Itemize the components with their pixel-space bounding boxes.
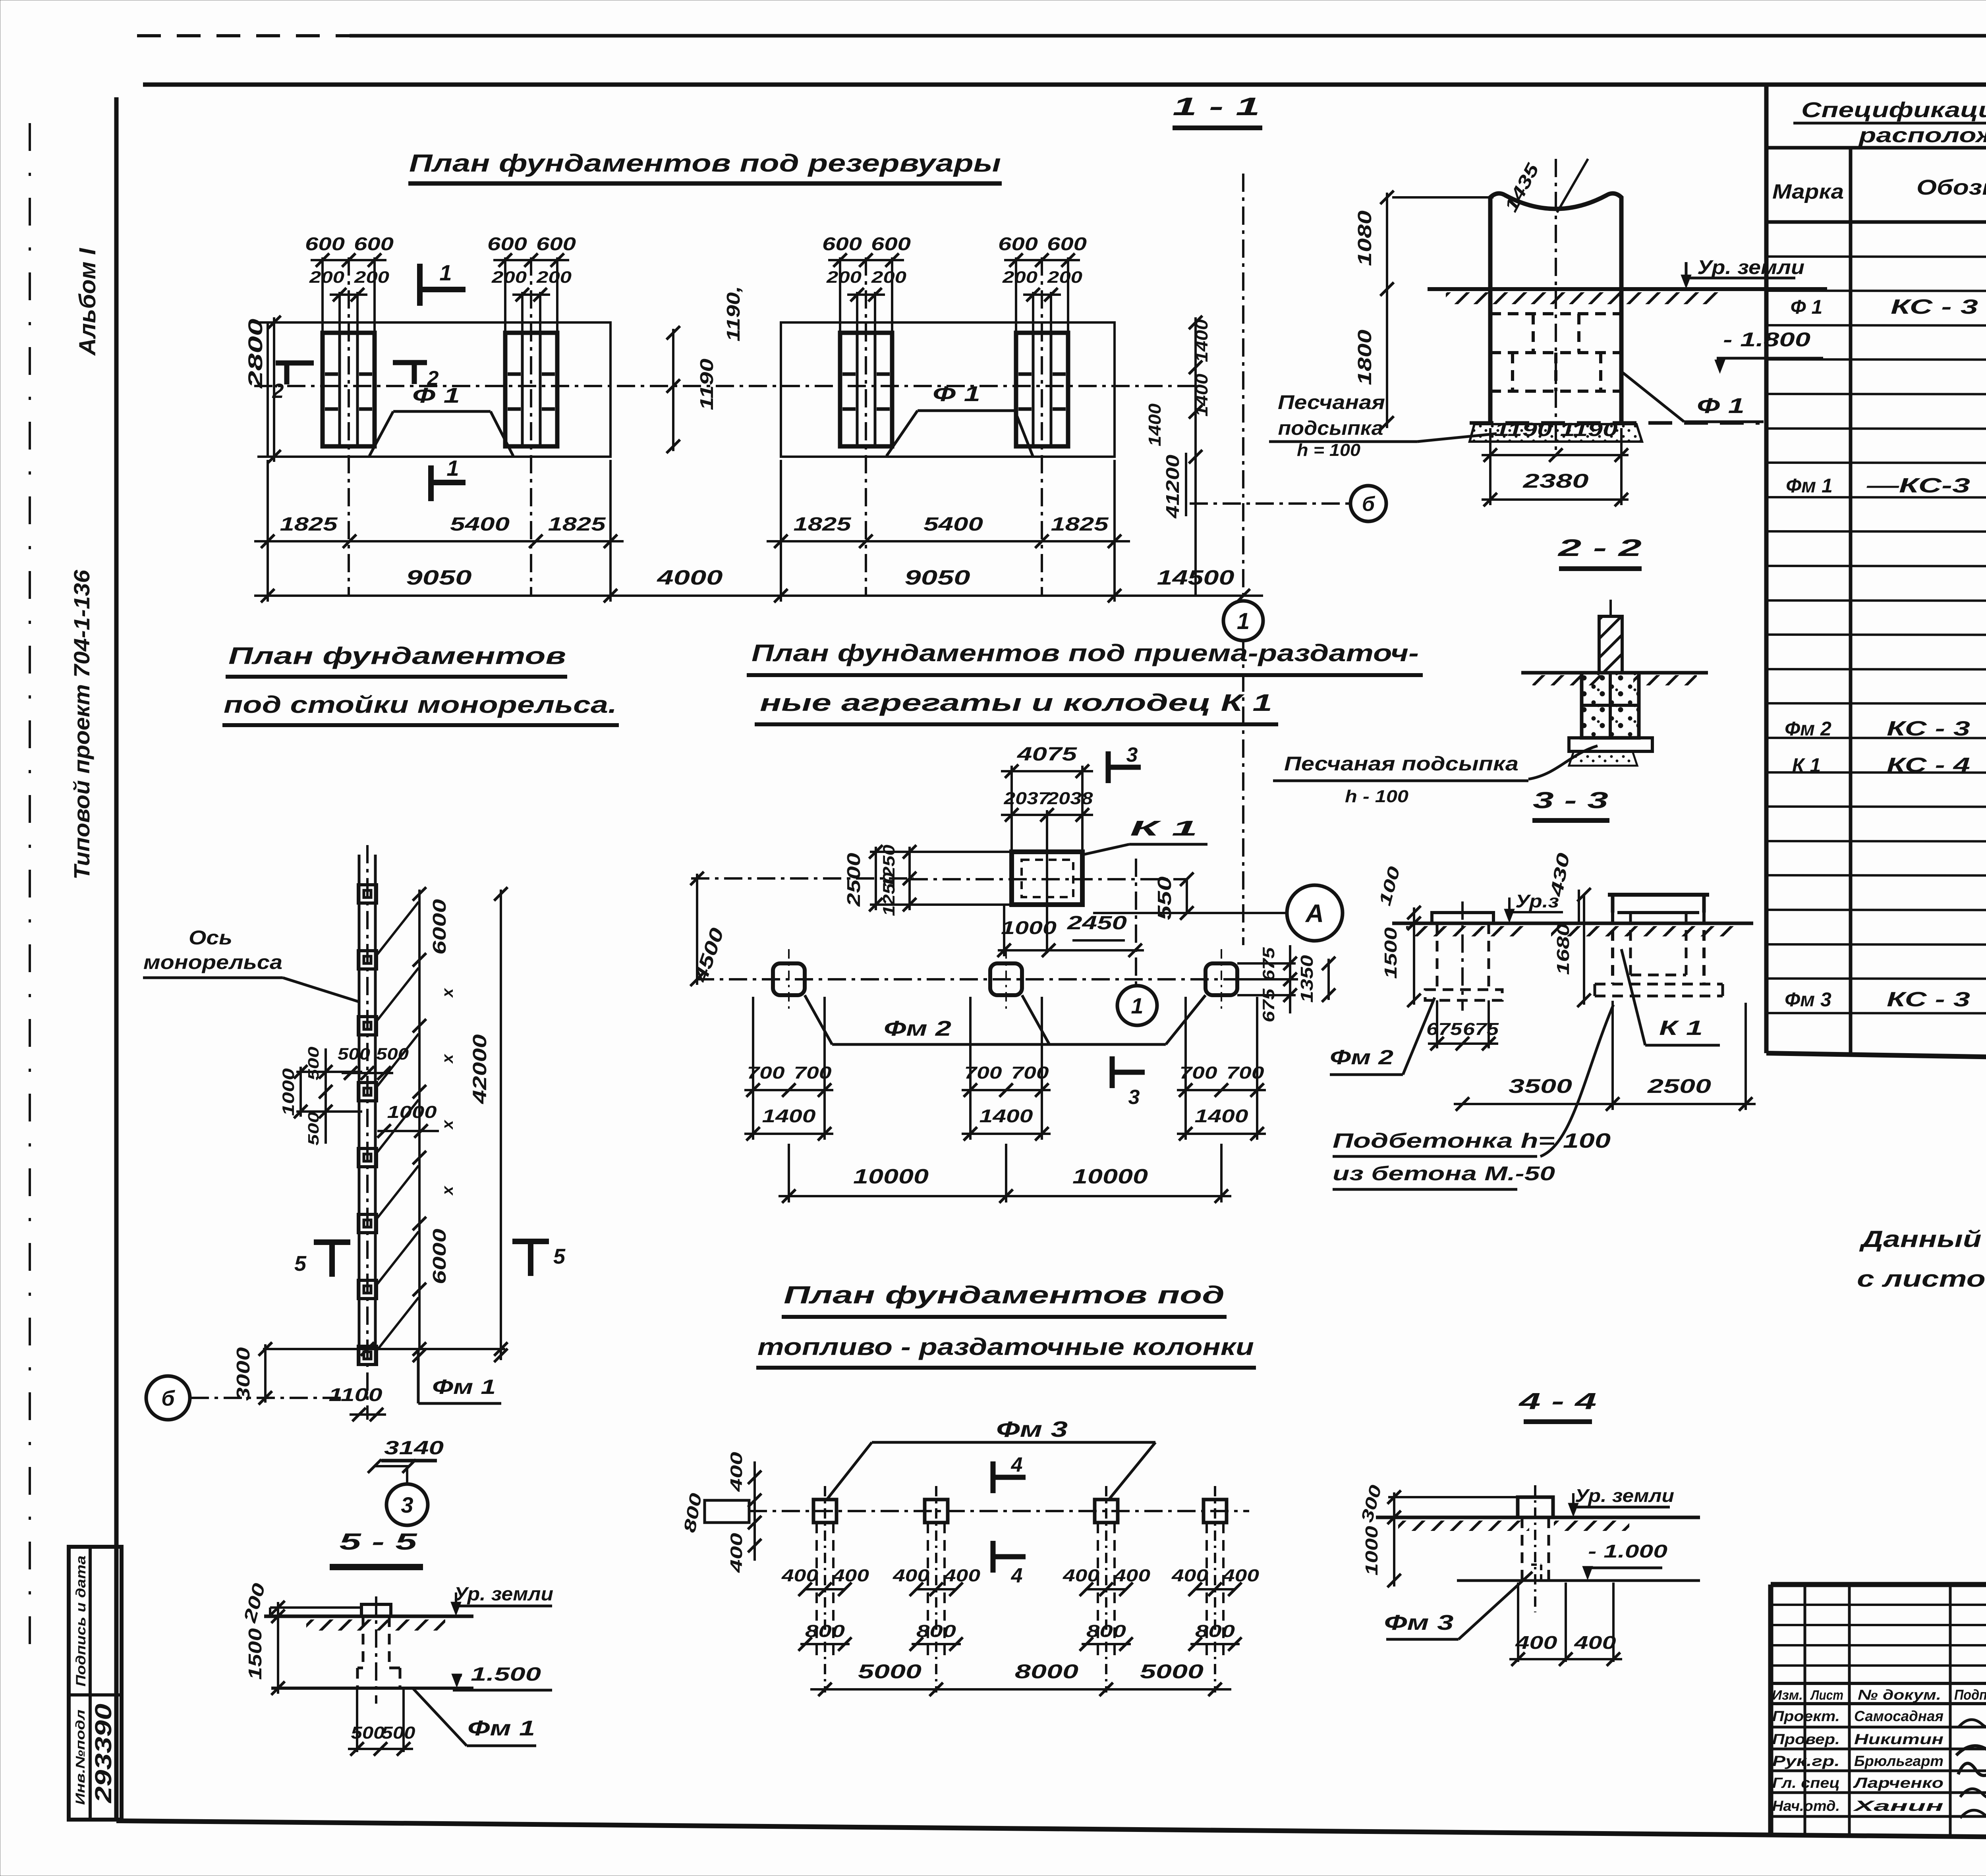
horizontal axis line of tank plan (254, 385, 1196, 387)
svg-text:700: 700 (1011, 1063, 1049, 1083)
left stamp box (69, 1547, 122, 1820)
tank pit outline group 2 (781, 322, 1115, 457)
axis line 1 central vertical (1135, 859, 1137, 986)
label ur zemli (1681, 256, 1804, 288)
axis circle 1 central (1117, 986, 1157, 1025)
svg-text:Ур. земли: Ур. земли (1697, 256, 1804, 278)
svg-text:800: 800 (1086, 1621, 1126, 1641)
svg-text:400: 400 (727, 1533, 746, 1573)
svg-text:2500: 2500 (843, 853, 864, 907)
svg-text:600: 600 (354, 234, 394, 254)
svg-text:200: 200 (354, 268, 389, 286)
svg-text:10000: 10000 (853, 1165, 929, 1188)
svg-text:400: 400 (1171, 1566, 1209, 1585)
dimension 430 (1547, 851, 1579, 923)
svg-text:План фундаментов под приема: План фундаментов под приема-раздаточ- (752, 640, 1419, 666)
svg-text:400: 400 (893, 1566, 930, 1585)
svg-text:Альбом I: Альбом I (75, 247, 100, 356)
svg-text:675: 675 (1259, 988, 1278, 1023)
svg-text:400: 400 (1574, 1632, 1616, 1653)
svg-text:Ханин: Ханин (1853, 1798, 1943, 1814)
svg-text:1: 1 (1237, 608, 1250, 634)
dimension 200/200 block 4 (1002, 268, 1082, 333)
dimension 675/675 under Fm2 3-3 (1426, 1000, 1499, 1050)
svg-text:2 - 2: 2 - 2 (1557, 535, 1642, 561)
dimension 2037/2038 (1001, 789, 1093, 852)
bottom dim line monorail (263, 1342, 508, 1356)
foundation block Ф1 #1 (323, 257, 375, 596)
label F1 right group (887, 382, 1033, 456)
svg-text:1680: 1680 (1553, 923, 1573, 975)
foundation block Ф1 #3 (840, 257, 892, 596)
svg-text:700: 700 (1227, 1063, 1265, 1083)
dimension row 1825/5400/1825 group1 (254, 460, 624, 548)
svg-text:Инв.№подл: Инв.№подл (73, 1710, 87, 1805)
brace diagonal #1 (377, 902, 419, 954)
svg-text:200: 200 (309, 268, 344, 286)
buried foundation dashed blocks (1490, 289, 1621, 423)
svg-text:600: 600 (1047, 234, 1087, 254)
svg-text:400: 400 (832, 1566, 869, 1585)
table row F1 (1791, 295, 1986, 318)
dimension 1190/1190 below section (1482, 419, 1629, 462)
ground line 2-2 (1521, 673, 1708, 685)
dimension 200/200 block 2 (491, 268, 572, 333)
svg-text:5400: 5400 (450, 514, 510, 535)
svg-text:Провер.: Провер. (1772, 1731, 1840, 1747)
tank pit outline group 1 (268, 322, 610, 457)
svg-text:План фундаментов: План фундаментов (228, 643, 566, 669)
svg-text:КС - 3: КС - 3 (1891, 295, 1978, 318)
svg-text:Гл. спец: Гл. спец (1772, 1775, 1840, 1791)
dimension 400/400 4-4 (1509, 1583, 1622, 1666)
svg-text:Рук.гр.: Рук.гр. (1772, 1753, 1840, 1769)
svg-text:2380: 2380 (1522, 470, 1589, 492)
monorail foundation pad Фм1 #5 (358, 1148, 377, 1167)
brace diagonal #5 (377, 1166, 419, 1218)
svg-text:Фм 2: Фм 2 (1330, 1046, 1393, 1069)
svg-text:x: x (439, 1054, 456, 1064)
svg-text:2800: 2800 (244, 318, 267, 389)
column pad Фм3 #3 (1095, 1486, 1118, 1693)
axis line through well K1 (910, 872, 1194, 886)
svg-text:Нач.отд.: Нач.отд. (1772, 1798, 1840, 1814)
column above ground 2-2 (1599, 600, 1622, 673)
svg-text:3: 3 (1126, 743, 1138, 766)
label Fm1 monorail (418, 1350, 501, 1403)
label peschanaya podsypka section 1-1 (1269, 391, 1497, 460)
svg-text:Ф 1: Ф 1 (933, 382, 980, 406)
note text (1857, 1226, 1986, 1292)
svg-text:1400: 1400 (1195, 1106, 1249, 1126)
ground line 5-5 (264, 1616, 473, 1631)
svg-text:1350: 1350 (1297, 955, 1317, 1003)
level mark -1.800 (1715, 328, 1823, 373)
svg-text:1190,: 1190, (723, 286, 744, 342)
svg-text:Никитин: Никитин (1854, 1731, 1943, 1747)
svg-text:600: 600 (822, 234, 862, 254)
svg-text:500: 500 (338, 1044, 370, 1063)
axis circle 1 (1223, 601, 1263, 641)
svg-text:10000: 10000 (1072, 1165, 1148, 1188)
svg-text:1190: 1190 (696, 358, 717, 410)
foundation block Ф1 #2 (505, 257, 557, 596)
table row lines (1766, 257, 1986, 1014)
svg-text:400: 400 (1222, 1566, 1260, 1585)
svg-text:500: 500 (382, 1723, 416, 1743)
label K1 3-3 (1621, 949, 1720, 1045)
signature rows (1772, 1708, 1986, 1818)
monorail foundation pad Фм1 #6 (358, 1214, 377, 1233)
dimension 1400 pad 3 (1177, 1096, 1266, 1141)
label ur z (1504, 891, 1563, 923)
label K1 plan (1083, 816, 1207, 855)
foundation pad Фм2 #1 (773, 949, 805, 1011)
specification table frame (1766, 86, 1986, 1067)
svg-text:6000: 6000 (429, 899, 450, 955)
svg-text:- 1.500: - 1.500 (454, 1664, 541, 1685)
svg-text:План фундаментов под: План фундаментов под (784, 1282, 1225, 1309)
svg-text:Данный чертеж рассматривать: Данный чертеж рассматривать совместно (1858, 1226, 1986, 1252)
svg-text:4000: 4000 (657, 566, 723, 589)
dimension 800 pad 4 (1188, 1621, 1242, 1651)
svg-text:—КС-3: —КС-3 (1866, 474, 1970, 497)
buried foundation 2-2 (1582, 673, 1639, 738)
dimension 600/600 block 1 (305, 234, 394, 333)
svg-text:500: 500 (351, 1723, 385, 1743)
svg-text:ные агрегаты и колодец К 1: ные агрегаты и колодец К 1 (760, 689, 1272, 716)
dimension 3500/2500 (1454, 1001, 1756, 1111)
dimension 400/400 pad 4 (1171, 1566, 1260, 1596)
svg-text:400: 400 (1063, 1566, 1100, 1585)
label Fm3 4-4 (1384, 1572, 1533, 1639)
svg-text:4 - 4: 4 - 4 (1518, 1388, 1597, 1414)
level line -1.000 (1457, 1541, 1700, 1581)
svg-text:14500: 14500 (1157, 566, 1234, 589)
section mark 4 top (993, 1453, 1026, 1493)
svg-text:Ф 1: Ф 1 (1697, 394, 1745, 418)
svg-text:Проект.: Проект. (1772, 1708, 1840, 1724)
dimension 700/700 pad 1 (744, 997, 833, 1097)
svg-text:1825: 1825 (280, 514, 338, 535)
svg-text:x: x (439, 1185, 456, 1196)
svg-text:1: 1 (439, 260, 452, 285)
svg-text:675: 675 (1259, 947, 1278, 981)
svg-text:монорельса: монорельса (143, 951, 282, 973)
svg-text:К 1: К 1 (1792, 754, 1821, 776)
svg-text:200: 200 (1002, 268, 1037, 286)
svg-text:Фм 2: Фм 2 (884, 1017, 951, 1040)
svg-text:План фундаментов под резер: План фундаментов под резервуары (409, 150, 1001, 177)
label ur zemli 4-4 (1568, 1485, 1674, 1517)
axis line b horizontal (1190, 502, 1350, 505)
column pad Фм3 #1 (813, 1486, 837, 1693)
svg-text:600: 600 (487, 234, 527, 254)
ground line 4-4 (1376, 1517, 1700, 1531)
dimension 100/1500 left of 3-3 (1375, 865, 1421, 1007)
svg-text:топливо - раздаточные колонки: топливо - раздаточные колонки (757, 1334, 1254, 1360)
axis line A horizontal (1093, 912, 1287, 914)
dimension 5000/8000/5000 (810, 1660, 1231, 1696)
svg-text:500: 500 (305, 1112, 322, 1146)
svg-text:1800: 1800 (1354, 330, 1376, 385)
dimension 500/500 5-5 (348, 1688, 415, 1756)
apron slab 5-5 (270, 1608, 361, 1616)
svg-text:№ докум.: № докум. (1858, 1687, 1941, 1703)
svg-text:из бетона М.-50: из бетона М.-50 (1333, 1162, 1555, 1185)
svg-text:3: 3 (401, 1492, 413, 1517)
svg-text:Самосадная: Самосадная (1854, 1708, 1943, 1724)
svg-text:2038: 2038 (1047, 789, 1093, 808)
svg-text:1400: 1400 (1192, 373, 1211, 417)
label os monorelsa (143, 926, 358, 1002)
title plan K1 line1 (747, 640, 1423, 675)
svg-text:б: б (1362, 493, 1376, 516)
section mark 5 right (512, 1241, 566, 1276)
buried column 5-5 (357, 1596, 400, 1704)
brace diagonal #2 (377, 968, 419, 1020)
table row Fm3 (1785, 988, 1986, 1049)
dimension 10000/10000 (779, 1144, 1231, 1203)
table row Fm1 (1786, 474, 1986, 531)
svg-text:1500: 1500 (245, 1628, 265, 1680)
svg-text:5: 5 (294, 1252, 307, 1276)
section 1-1 title (1173, 92, 1262, 128)
foundation pad Фм2 #3 (1206, 949, 1237, 1011)
paper top edge line (137, 23, 1986, 83)
svg-text:Фм 2: Фм 2 (1785, 718, 1831, 740)
radius line 1435 (1500, 159, 1588, 215)
dimension 550 offset (1154, 876, 1194, 920)
left trim dashed line (29, 123, 31, 1658)
svg-text:700: 700 (747, 1063, 785, 1083)
dimension 1080/1800 left of section (1354, 191, 1493, 430)
svg-text:1400: 1400 (979, 1106, 1034, 1126)
svg-text:под стойки монорельса.: под стойки монорельса. (224, 691, 617, 718)
svg-text:3500: 3500 (1509, 1075, 1572, 1097)
svg-text:1000: 1000 (1001, 917, 1057, 938)
svg-text:500: 500 (305, 1047, 322, 1081)
svg-text:700: 700 (964, 1063, 1003, 1083)
detail dims at pad 4: 500/500/1000 (279, 1044, 439, 1146)
svg-text:6000: 6000 (429, 1228, 450, 1284)
svg-text:А: А (1305, 899, 1324, 928)
svg-text:3 - 3: 3 - 3 (1533, 787, 1608, 813)
svg-text:600: 600 (871, 234, 911, 254)
svg-text:600: 600 (998, 234, 1038, 254)
section mark 3 bottom (1112, 1056, 1145, 1109)
level line -1.500 (271, 1664, 552, 1690)
svg-text:9050: 9050 (905, 566, 970, 589)
svg-text:3: 3 (1128, 1086, 1140, 1109)
monorail foundation pad Фм1 #4 (358, 1083, 377, 1101)
svg-text:1400: 1400 (1192, 319, 1211, 362)
svg-text:Фм 1: Фм 1 (1786, 475, 1833, 497)
dimension 675/675 right (1237, 945, 1297, 1023)
svg-text:Марка: Марка (1772, 180, 1844, 203)
dimension 600/600 block 4 (998, 234, 1087, 333)
monorail foundation pad Фм1 #7 (358, 1280, 377, 1299)
svg-text:с листом КС-3.: с листом КС-3. (1857, 1266, 1986, 1292)
svg-text:КС - 3: КС - 3 (1887, 988, 1970, 1011)
svg-text:400: 400 (1515, 1632, 1557, 1653)
svg-text:Ф 1: Ф 1 (1791, 296, 1823, 318)
table row Fm2 (1785, 717, 1986, 740)
axis circle b bottom (146, 1376, 350, 1420)
dimension 200/1500 5-5 (240, 1581, 285, 1695)
dimension 1680 (1553, 888, 1591, 1007)
svg-text:Лист: Лист (1810, 1688, 1843, 1703)
monorail overall dim 42000 (469, 887, 508, 1362)
svg-text:1080: 1080 (1354, 210, 1376, 266)
svg-text:h = 100: h = 100 (1297, 440, 1361, 460)
axis circle b top (1350, 486, 1386, 521)
left element 800x400 (680, 1452, 761, 1573)
svg-text:- 1.800: - 1.800 (1723, 328, 1810, 351)
svg-text:5000: 5000 (1140, 1660, 1204, 1683)
revision header labels (1772, 1687, 1986, 1703)
label F1 left group (369, 384, 513, 456)
section mark 4 bottom (993, 1541, 1026, 1587)
section mark 2 left (272, 363, 314, 403)
svg-text:1100: 1100 (329, 1384, 383, 1405)
svg-text:600: 600 (536, 234, 576, 254)
label Fm2 3-3 (1330, 998, 1435, 1075)
svg-text:1825: 1825 (548, 514, 607, 535)
vertical axis line 1 (1242, 174, 1244, 945)
dimension 700/700 pad 3 (1177, 997, 1266, 1097)
foundation block Ф1 #4 (1016, 257, 1068, 596)
brace diagonal #3 (377, 1034, 419, 1086)
svg-text:2037: 2037 (1003, 789, 1051, 808)
brace diagonal #6 (377, 1231, 419, 1284)
title plan fundamentov pod stoyki monorelsa (222, 643, 619, 725)
dimension 3000 (233, 1342, 272, 1405)
svg-text:800: 800 (1195, 1621, 1235, 1641)
svg-text:Ур. земли: Ур. земли (1575, 1485, 1674, 1506)
section 4-4 title (1518, 1388, 1597, 1422)
dimension 300/1000 4-4 (1357, 1483, 1519, 1587)
svg-text:600: 600 (305, 234, 345, 254)
monorail foundation pad Фм1 #3 (358, 1017, 377, 1035)
svg-text:675: 675 (1463, 1019, 1499, 1039)
svg-text:Ф 1: Ф 1 (412, 384, 460, 407)
svg-text:2450: 2450 (1067, 913, 1127, 934)
svg-text:Изм.: Изм. (1772, 1688, 1803, 1703)
svg-text:4: 4 (1011, 1453, 1023, 1476)
dimension 400/400 pad 1 (781, 1566, 869, 1596)
label F1 section 1-1 (1623, 372, 1764, 422)
dimension 4075 (1001, 744, 1093, 852)
svg-text:5 - 5: 5 - 5 (340, 1529, 417, 1555)
svg-text:К 1: К 1 (1659, 1017, 1703, 1040)
svg-text:800: 800 (916, 1621, 956, 1641)
ground level line section 1-1 (1428, 289, 1827, 304)
svg-text:КС - 3: КС - 3 (1887, 717, 1970, 740)
svg-text:Типовой проект 704-1-136: Типовой проект 704-1-136 (69, 569, 94, 880)
svg-text:5: 5 (553, 1245, 566, 1268)
label Fm3 with trapezoid leader (826, 1417, 1155, 1500)
svg-text:800: 800 (805, 1621, 845, 1641)
svg-text:3000: 3000 (233, 1347, 253, 1401)
foundation pad Фм2 #2 (990, 949, 1022, 1011)
label Fm1 5-5 (413, 1689, 536, 1746)
svg-text:1500: 1500 (1381, 927, 1401, 979)
dimension 200/200 block 3 (826, 268, 906, 333)
section mark 3 top (1108, 743, 1141, 783)
brace diagonal #7 (377, 1297, 419, 1350)
svg-text:Ось: Ось (189, 926, 232, 949)
svg-text:1190: 1190 (1560, 419, 1618, 440)
dimension 600/600 block 2 (487, 234, 576, 333)
svg-text:42000: 42000 (469, 1034, 491, 1104)
dimension row 9050/4000/9050/14500 (254, 547, 1263, 602)
svg-text:расположенным на данном л: расположенным на данном листе. (1858, 124, 1986, 147)
svg-text:8000: 8000 (1015, 1660, 1078, 1683)
K1 well section in 3-3 (1595, 895, 1723, 996)
dimension 800 pad 1 (798, 1621, 852, 1651)
svg-text:9050: 9050 (406, 566, 472, 589)
vertical dimension 2800 (244, 316, 357, 463)
dimension 600/600 block 3 (822, 234, 911, 333)
svg-text:Песчаная: Песчаная (1278, 391, 1385, 413)
svg-text:675: 675 (1426, 1019, 1462, 1039)
section mark 5 left (294, 1242, 350, 1277)
svg-text:x: x (439, 1119, 456, 1130)
dimension 1000/2450 (997, 810, 1144, 957)
monorail foundation pad Фм1 #8 (358, 1346, 377, 1365)
section mark 1 top (420, 260, 466, 306)
title block outer frame (1771, 1585, 1986, 1842)
axis line through column pads (749, 1510, 1249, 1512)
svg-text:400: 400 (1113, 1566, 1151, 1585)
svg-text:400: 400 (781, 1566, 819, 1585)
svg-text:Фм 1: Фм 1 (432, 1376, 496, 1399)
title plan K1 line2 (755, 689, 1278, 724)
title plan kolonki line2 (756, 1334, 1256, 1368)
svg-text:- 1.000: - 1.000 (1588, 1541, 1668, 1561)
svg-text:x: x (439, 988, 456, 998)
dimension row 1825/5400/1825 group2 (767, 460, 1130, 548)
section mark 2 right (393, 363, 439, 390)
label peschanaya podsypka 2-2 (1273, 746, 1598, 806)
svg-text:1 - 1: 1 - 1 (1173, 92, 1260, 121)
svg-text:1400: 1400 (762, 1106, 816, 1126)
axis circle A (1287, 885, 1343, 941)
tank saddle foundation section (1490, 193, 1621, 423)
svg-text:293390: 293390 (91, 1704, 116, 1803)
brace diagonal #4 (377, 1100, 419, 1152)
column pad Фм3 #2 (925, 1486, 948, 1693)
ground line 3-3 (1392, 923, 1753, 936)
K1 well plan (1012, 852, 1082, 905)
svg-text:Подпись: Подпись (1954, 1687, 1986, 1703)
svg-text:1825: 1825 (1051, 514, 1109, 535)
Fm2 section in 3-3 (1425, 901, 1502, 1011)
svg-text:5000: 5000 (858, 1660, 922, 1683)
axis circle 3 (386, 1484, 428, 1525)
svg-text:Песчаная подсыпка: Песчаная подсыпка (1284, 753, 1518, 775)
monorail dim line 6000 series (413, 887, 456, 1362)
pad above ground 4-4 (1518, 1497, 1553, 1517)
svg-text:200: 200 (491, 268, 527, 286)
svg-text:400: 400 (727, 1452, 746, 1492)
monorail foundation pad Фм1 #1 (358, 885, 377, 903)
table row K1 (1792, 754, 1986, 777)
label Fm2 with leaders (805, 995, 1206, 1044)
svg-text:500: 500 (376, 1044, 409, 1063)
dimension 400/400 pad 2 (893, 1566, 981, 1596)
